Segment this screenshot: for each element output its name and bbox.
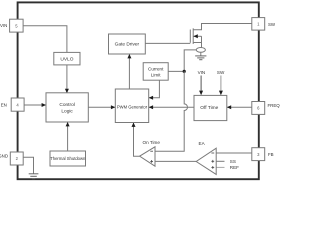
current sense ellipse	[196, 48, 205, 53]
IC outline border	[18, 2, 259, 179]
block PWM Generator	[115, 89, 148, 123]
block Thermal Shutdown	[50, 151, 86, 166]
block Off Time	[194, 95, 227, 120]
wire REF stub	[216, 166, 224, 168]
svg-text:FREQ: FREQ	[268, 103, 281, 108]
wire VIN sense arrow into Off Time	[200, 76, 202, 91]
svg-text:FB: FB	[268, 152, 274, 157]
pin FREQ (6)	[252, 102, 280, 115]
wire Current Limit to junction node	[168, 70, 184, 72]
wire VIN pin to UVLO	[23, 26, 67, 53]
pin EN (4)	[1, 98, 24, 111]
svg-text:PWM Generator: PWM Generator	[117, 105, 148, 110]
svg-text:Logic: Logic	[61, 108, 73, 114]
svg-text:EN: EN	[1, 102, 7, 107]
wire FREQ pin to Off Time	[227, 106, 252, 108]
pin FB (3)	[252, 148, 274, 161]
wire SW sense arrow into Off Time	[220, 76, 222, 91]
pin GND (2)	[0, 152, 23, 165]
svg-text:Gate Driver: Gate Driver	[115, 42, 140, 48]
ground symbol under sense ellipse	[200, 52, 202, 55]
wire EA output to On Time comparator	[155, 160, 196, 162]
comparator On Time	[140, 140, 161, 166]
svg-text:SW: SW	[268, 22, 276, 27]
op-amp EA (error amplifier)	[196, 141, 216, 174]
pin SW (1)	[252, 18, 276, 31]
svg-text:Control: Control	[59, 102, 74, 108]
node junction dot	[183, 70, 186, 73]
svg-text:On Time: On Time	[143, 140, 161, 145]
block Current Limit	[143, 63, 168, 80]
gate bar	[189, 30, 191, 43]
svg-text:UVLO: UVLO	[60, 56, 73, 62]
wire sense line down with hop to On Time comparator	[155, 71, 187, 151]
wire Control Logic to PWM Generator	[88, 106, 115, 108]
svg-text:Off Time: Off Time	[200, 105, 218, 111]
svg-text:VIN: VIN	[198, 70, 206, 75]
wire MOSFET source to sense ellipse	[193, 43, 201, 48]
wire Off Time to PWM Generator	[149, 106, 194, 108]
svg-text:SW: SW	[217, 70, 225, 75]
svg-text:Limit: Limit	[151, 72, 161, 77]
svg-text:Current: Current	[148, 67, 164, 72]
wire UVLO to Control Logic	[66, 65, 68, 94]
pin VIN (5)	[0, 19, 23, 32]
svg-text:REF: REF	[230, 165, 239, 170]
wire MOSFET drain to SW pin	[193, 24, 252, 30]
wire PWM Generator to Gate Driver	[128, 55, 130, 90]
svg-text:SS: SS	[230, 159, 236, 164]
wire Current Limit to PWM Generator	[149, 80, 159, 98]
wire sense tap to junction	[184, 50, 196, 72]
svg-text:EA: EA	[199, 141, 206, 146]
transistor Q1 MOSFET	[190, 28, 201, 44]
wire EN to Control Logic	[24, 104, 45, 106]
wire On Time output to PWM Generator	[134, 123, 140, 156]
body stub with arrow	[193, 35, 201, 37]
wire Gate Driver to MOSFET gate	[145, 42, 190, 44]
block Gate Driver	[109, 34, 146, 54]
channel bar	[192, 28, 194, 44]
wire SS stub	[216, 160, 224, 162]
svg-text:VIN: VIN	[0, 23, 7, 28]
block Control Logic	[46, 93, 88, 122]
wire Thermal Shutdown to Control Logic	[67, 123, 69, 152]
wire GND pin to ground	[23, 157, 33, 173]
svg-text:GND: GND	[0, 154, 8, 159]
svg-text:Thermal Shutdown: Thermal Shutdown	[50, 156, 86, 161]
block UVLO	[54, 52, 80, 65]
ground symbol under GND pin	[29, 174, 39, 179]
wire EA inverting input to FB pin	[216, 152, 252, 154]
